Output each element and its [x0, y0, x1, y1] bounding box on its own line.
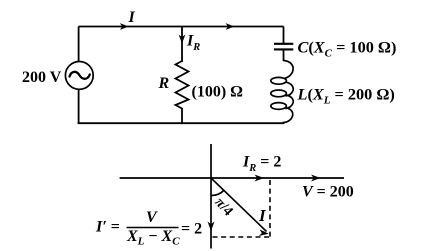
arrow IR phasor tip: [255, 175, 265, 182]
svg-text:C(XC = 100 Ω): C(XC = 100 Ω): [298, 38, 397, 60]
wire left vertical upper: [78, 27, 80, 62]
svg-text:I: I: [128, 9, 136, 26]
capacitor C plates: [274, 43, 293, 45]
phasor vertical axis: [210, 144, 212, 249]
phasor horizontal axis (V direction): [120, 177, 344, 179]
svg-text:(100) Ω: (100) Ω: [192, 84, 244, 101]
phasor I diagonal vector: [211, 178, 267, 232]
wire resistor branch upper: [181, 27, 183, 63]
ac source V1 (200 V): [65, 62, 93, 90]
wire right vertical upper: [283, 27, 285, 44]
svg-text:XL − XC: XL − XC: [126, 228, 180, 248]
angle arc pi/4: [211, 190, 224, 195]
wire top (node A to node B): [79, 26, 284, 28]
arrow current IR: [179, 35, 186, 44]
wire bottom: [78, 122, 285, 124]
dashed vertical projection line: [269, 180, 271, 237]
wire resistor branch lower: [181, 108, 183, 124]
arrow current I on top wire: [120, 23, 129, 30]
inductor L coil: [284, 61, 294, 79]
svg-text:200 V: 200 V: [22, 69, 62, 86]
arrow current into LC branch on top wire: [226, 23, 235, 30]
resistor R zigzag: [176, 61, 189, 109]
svg-text:R: R: [158, 75, 170, 92]
wire between capacitor and inductor: [283, 49, 285, 61]
arrow V phasor tip: [311, 175, 321, 182]
svg-text:V = 200: V = 200: [302, 184, 354, 201]
dashed horizontal projection line: [213, 236, 271, 238]
svg-text:= 2: = 2: [181, 221, 202, 238]
svg-text:V: V: [146, 209, 158, 226]
wire left vertical lower: [78, 89, 80, 124]
arrow I' phasor (down along vertical axis): [208, 222, 215, 232]
svg-text:I′ =: I′ =: [95, 219, 120, 236]
svg-text:L(XL = 200 Ω): L(XL = 200 Ω): [297, 85, 395, 107]
